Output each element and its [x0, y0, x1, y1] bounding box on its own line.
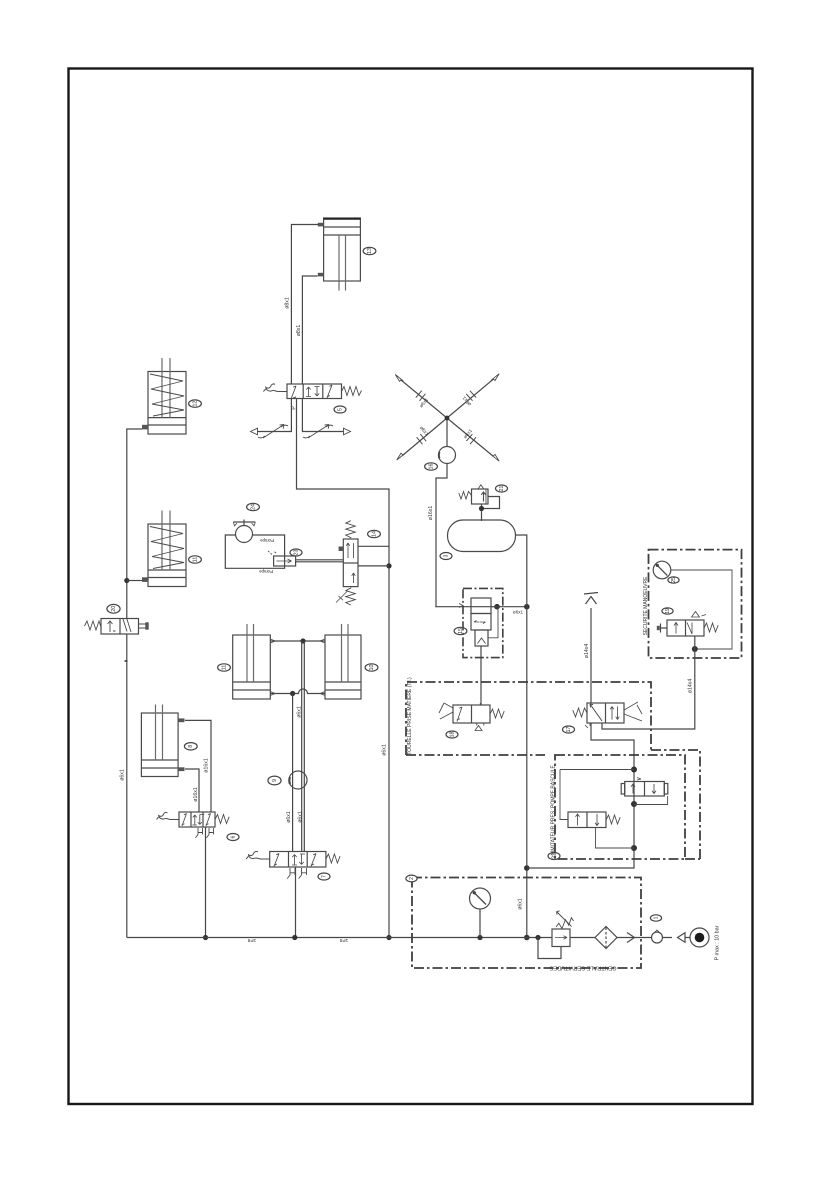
bubble 6 — [227, 834, 239, 841]
wire valveA right loop — [634, 796, 668, 805]
valve 22s (3/2 plunger + spring) — [657, 612, 706, 637]
node regulator pilot at bus — [535, 935, 540, 940]
wire regulator pilot loop — [538, 938, 561, 959]
cylinder 11L of facing pair — [233, 624, 276, 699]
bubble 24 — [247, 503, 260, 510]
bubble 16 — [425, 463, 438, 470]
cylinder 13 — [318, 218, 361, 291]
valve B spring — [606, 815, 620, 824]
wire vent line above valve19 — [590, 608, 592, 703]
svg-text:19: 19 — [665, 608, 671, 614]
pressure regulator 1r — [552, 911, 574, 947]
valve 6 exhaust ports — [195, 828, 202, 838]
svg-text:3: 3 — [443, 554, 449, 557]
node limiter bottom — [631, 845, 637, 851]
wire bus inside centrale box — [570, 937, 690, 939]
wire left rail cylinder12 to valve20 — [127, 429, 142, 619]
bubble 22 — [548, 853, 560, 860]
wire cylinder13 port B to valve5 — [302, 276, 317, 384]
bubble 20 — [107, 604, 120, 613]
bubble 18 — [446, 731, 458, 738]
svg-text:20: 20 — [111, 606, 117, 612]
wire bottom bus — [127, 937, 552, 939]
wire valve5 P supply down-right to bottom bus — [297, 399, 390, 938]
bubble 1 — [650, 915, 661, 921]
svg-text:ø16x1: ø16x1 — [428, 506, 434, 521]
svg-text:16: 16 — [428, 464, 434, 470]
svg-text:18: 18 — [449, 732, 455, 738]
flow indicator 16 circle — [439, 447, 456, 464]
svg-text:10: 10 — [369, 665, 375, 671]
node gauge2 at bus — [477, 935, 482, 940]
svg-text:9: 9 — [272, 779, 278, 782]
svg-text:8: 8 — [188, 745, 194, 748]
svg-text:ø6x1: ø6x1 — [296, 706, 302, 718]
quick coupling circle — [652, 930, 663, 943]
border frame — [69, 69, 753, 1105]
svg-text:SECURITE MANOEUVRE: SECURITE MANOEUVRE — [643, 576, 649, 636]
svg-text:ø6x1: ø6x1 — [119, 769, 125, 781]
valve A pilot relief — [621, 778, 668, 797]
svg-text:ø8x1: ø8x1 — [284, 297, 290, 309]
exhaust arrow left — [251, 428, 258, 435]
bubble 17 — [563, 726, 575, 733]
filter 1f — [595, 927, 617, 949]
node valve14 branch on P line — [386, 563, 391, 568]
wire cylinder8 bottom port to valve6 — [185, 769, 199, 812]
svg-text:ø8x1: ø8x1 — [296, 325, 302, 337]
air source symbol — [690, 928, 709, 947]
wire cylinder13 port A to valve5 — [291, 225, 323, 385]
bubble 19s — [662, 608, 673, 614]
svg-text:11: 11 — [192, 557, 198, 563]
wire relief21 to accumulator — [482, 497, 500, 522]
bubble 25 — [668, 577, 679, 583]
valve 6 pedal actuator — [157, 812, 180, 819]
node cylinder11 tap on left rail — [124, 578, 129, 583]
svg-text:1P8: 1P8 — [339, 937, 348, 943]
wire cylinder pair bottom ports with hop — [270, 689, 325, 694]
svg-text:ø6x1: ø6x1 — [381, 744, 387, 756]
node valve15 outlet — [494, 604, 500, 610]
node limiter top — [631, 767, 637, 773]
wire securite valve to node — [694, 636, 696, 658]
wire valve7 P to bus — [295, 867, 297, 938]
wire valve6 P to bus — [205, 827, 207, 938]
valve 5 (5/2 pedal valve) — [287, 382, 342, 401]
dashed extension limitateur bottom — [685, 858, 700, 860]
accumulator 3 — [448, 520, 516, 552]
wire valve5 right exhaust — [302, 399, 344, 432]
relief valve 21 — [459, 485, 488, 504]
valve 7 pedal actuator — [246, 851, 270, 859]
svg-text:Pompe: Pompe — [258, 569, 272, 574]
wire cylinder11 port to left rail — [127, 580, 142, 582]
bubble 9 — [268, 776, 281, 785]
valve 7 return spring — [326, 854, 340, 863]
wire valve15 main line to rail — [435, 606, 527, 608]
flow control right of valve5 — [303, 425, 333, 439]
bubble 13 — [363, 247, 376, 254]
flow control left of valve5 — [258, 425, 288, 439]
node rail at valve15 line — [524, 604, 530, 610]
cylinder 10R of facing pair — [320, 624, 361, 699]
svg-text:ø6x1: ø6x1 — [297, 811, 303, 823]
cylinder 8 — [141, 705, 184, 777]
outlet arrow — [627, 933, 635, 943]
cylinder 12 (spring return) — [142, 358, 186, 434]
svg-text:5: 5 — [337, 408, 343, 411]
bubble 14 — [368, 530, 381, 537]
wire twin pipe from top ports to valve7 — [302, 641, 305, 852]
valve B — [568, 812, 606, 828]
bubble 12 — [189, 400, 202, 407]
flow indicator 9 circle — [289, 771, 307, 789]
exhaust arrow right — [344, 428, 351, 435]
svg-text:13: 13 — [367, 248, 373, 254]
node rail to bus — [524, 935, 530, 941]
svg-text:24: 24 — [250, 504, 256, 510]
node cylinder pair bottom — [290, 691, 295, 696]
node valve6 P at bus — [203, 935, 208, 940]
svg-text:TOURELLE PRISE MATIERE (T.I.): TOURELLE PRISE MATIERE (T.I.) — [407, 677, 413, 755]
wire rail to pressure-limiter box — [527, 723, 634, 868]
svg-text:ø6x1: ø6x1 — [286, 811, 292, 823]
svg-text:17: 17 — [566, 727, 572, 733]
wire valveB loop to rail — [596, 828, 635, 849]
dashed box securite manoeuvre — [649, 550, 742, 658]
valve 14 (4/2 both springs) — [336, 521, 358, 605]
svg-text:ø6x1: ø6x1 — [418, 425, 430, 437]
wire accumulator to vertical rail — [515, 535, 527, 938]
gauge 25 — [653, 561, 671, 579]
node rail to limiter line — [524, 865, 530, 871]
svg-text:CENTRALE SERVITUDES: CENTRALE SERVITUDES — [549, 965, 616, 971]
valve 19 (3/2 spring + lever) — [585, 702, 642, 728]
gauge 2 — [470, 888, 491, 909]
svg-text:ø6x1: ø6x1 — [513, 610, 524, 615]
node P line to bus — [386, 935, 391, 940]
svg-text:15: 15 — [458, 628, 464, 634]
svg-text:ø14x4: ø14x4 — [584, 644, 590, 659]
bubble 15 — [454, 627, 467, 634]
svg-text:ø14x4: ø14x4 — [687, 679, 693, 694]
wire X-manifold down to flow indicator 16 — [446, 420, 448, 447]
svg-text:ø6x1: ø6x1 — [517, 898, 523, 910]
wire cylinder8 top port to valve6 — [185, 720, 211, 812]
limitateur inner wires — [560, 770, 634, 820]
valve 18 (3/2 lever + spring) — [439, 703, 490, 731]
bubble 7 — [318, 873, 330, 880]
valve 19 spring — [573, 708, 587, 717]
dashed box limitateur — [555, 755, 685, 859]
bubble 21 — [496, 485, 508, 492]
dashed box tourelle (T.I.) — [406, 682, 700, 859]
bubble 11L — [218, 664, 231, 671]
valve 6 (5/2 pedal valve) — [179, 812, 215, 827]
svg-text:6: 6 — [230, 835, 236, 838]
valve 6 return spring — [215, 815, 229, 824]
bubble 10R — [365, 664, 378, 671]
wire pump loop rectangle — [225, 535, 284, 568]
bubble 3 — [440, 553, 452, 560]
bubble 2 on box corner — [406, 875, 417, 882]
svg-text:2: 2 — [409, 877, 415, 880]
svg-text:1: 1 — [653, 916, 659, 919]
wire valve5 left exhaust — [257, 399, 291, 432]
bubble 23 — [290, 549, 302, 556]
svg-text:14: 14 — [371, 531, 377, 537]
hand pump 24 — [233, 520, 255, 543]
svg-text:23: 23 — [293, 550, 299, 556]
wire valve19 second port to securite box — [602, 658, 695, 729]
svg-text:LIMITATEUR PRES. POMPE BASCULE: LIMITATEUR PRES. POMPE BASCULE — [550, 765, 556, 855]
valve 5 pedal actuator — [263, 384, 287, 392]
svg-text:21: 21 — [499, 486, 505, 492]
valve 5 return spring — [342, 387, 362, 396]
svg-text:ø16x1: ø16x1 — [193, 787, 199, 802]
wire cylinder pair top ports — [270, 640, 325, 642]
svg-text:11: 11 — [221, 665, 227, 671]
svg-text:25: 25 — [671, 577, 677, 583]
svg-text:1P8: 1P8 — [247, 937, 256, 943]
vent to atmosphere arrow — [584, 593, 598, 605]
wire valve15 bottom port to valve18 — [480, 646, 482, 705]
X manifold distribution cross — [395, 374, 499, 462]
svg-text:12: 12 — [192, 401, 198, 407]
valve 22s spring — [704, 623, 718, 632]
svg-text:P max : 10 bar: P max : 10 bar — [714, 925, 720, 960]
valve 15 pressure reducer — [459, 588, 503, 657]
node valve7 P at bus — [292, 935, 297, 940]
wire link valve23 to valve14 (twin) — [296, 560, 344, 562]
wire valve14 ports to P line — [358, 546, 389, 566]
bubble 8 — [184, 743, 197, 750]
wire pipe from bottom ports to valve7 — [292, 694, 294, 852]
bubble 11 — [189, 556, 202, 563]
svg-text:Pompe: Pompe — [259, 538, 273, 543]
node cylinder pair top — [300, 638, 305, 643]
cylinder 11 (spring return) — [142, 511, 186, 587]
wire flow indicator 16 down to valve15 inlet — [436, 464, 447, 607]
valve 23 — [268, 551, 296, 566]
node limiter mid — [631, 801, 637, 807]
svg-text:ø16x1: ø16x1 — [203, 758, 209, 773]
supply triangle — [678, 933, 686, 942]
node securite valve port — [692, 646, 698, 652]
securite inner circuit — [671, 570, 732, 649]
node relief to accumulator — [479, 506, 484, 511]
wire left rail valve20 to bus corner — [126, 634, 128, 938]
wire gauge2 stem — [479, 909, 481, 938]
valve 20 (3/2 spring + plunger) — [85, 619, 149, 662]
valve 18 return spring — [490, 709, 504, 718]
valve 7 exhaust ports — [287, 868, 295, 879]
svg-text:22: 22 — [551, 853, 557, 859]
dashed box centrale servitudes — [412, 878, 641, 969]
bubble 5 — [334, 406, 346, 413]
valve 7 (5/2 pedal valve) — [270, 850, 326, 868]
svg-text:7: 7 — [321, 875, 327, 878]
